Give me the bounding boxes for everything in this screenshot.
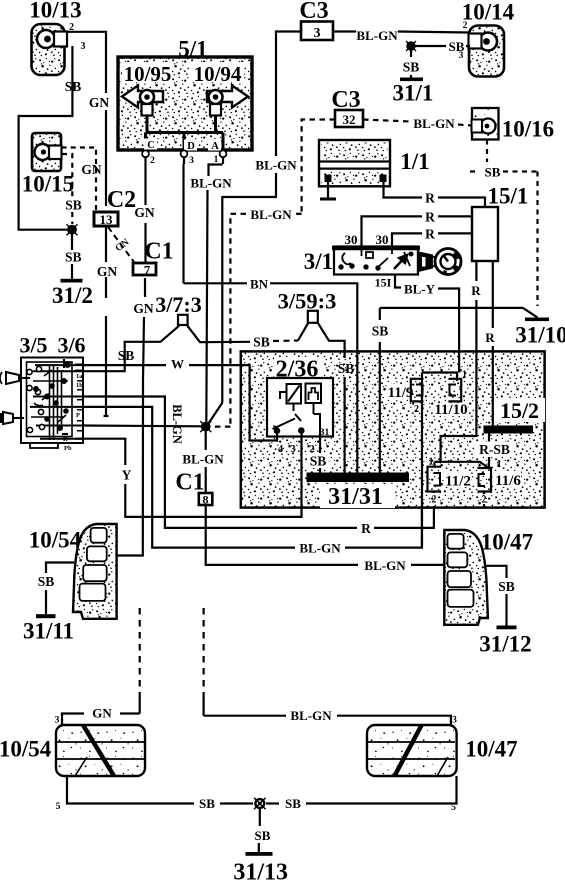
svg-text:C1: C1 [144,239,173,265]
svg-text:1: 1 [497,459,502,470]
ignition switch 3/1 [304,232,420,290]
svg-text:1: 1 [462,370,467,381]
indicator lamp 11/10 [434,379,468,418]
connector C2 [94,187,136,227]
wire R from 15/1 down to junction [441,261,477,462]
indicator lamp 11/9 [387,379,424,415]
label R-SB [476,442,514,458]
wire R fuse to ignition switch feed 1 [362,216,473,246]
flasher relay 2/36 [267,357,333,437]
wire BL-GN from C3-3 to pin A line [206,32,301,427]
svg-text:10/54: 10/54 [29,528,82,553]
svg-text:R: R [485,330,495,345]
pin 5 labels [56,802,457,813]
wire SB 10/47 to ground 31/12 [487,566,507,626]
splice dot BL-GN [200,421,211,432]
connector arrow at switch left [0,372,30,384]
svg-text:31: 31 [320,428,330,438]
svg-text:SB: SB [65,250,82,265]
connector 3/59:3 [278,289,337,323]
wire BL-GN C1-8 to 10/47 [206,505,445,565]
pin C [142,139,157,167]
tail lamp cluster 10/54 left [29,524,117,619]
svg-text:10/16: 10/16 [502,117,554,142]
wire BL-GN from pin A down to splice [206,165,222,427]
svg-text:30: 30 [345,232,358,247]
svg-text:10/94: 10/94 [194,62,242,86]
ground bus bar 31/31 [307,473,410,511]
wire BL-GN from pin D down [182,164,184,283]
svg-text:10/47: 10/47 [465,737,517,762]
svg-text:SB: SB [449,39,465,54]
turn signal switch 3/5 3/6 [19,333,85,449]
splice dot 31/2 [67,224,78,235]
svg-text:2: 2 [463,21,468,31]
wire GN from pin C down [117,164,146,556]
internal wires 5/1 [146,116,224,151]
svg-text:3/6: 3/6 [57,333,85,358]
fuse box 15/1 [472,184,528,262]
svg-text:3/7:3: 3/7:3 [155,292,201,317]
svg-text:11/9: 11/9 [388,385,414,401]
svg-text:R-SB: R-SB [479,442,510,457]
2/36 internal coil [280,384,301,411]
wire SB to ground 31/1 [410,50,412,78]
3/1 internal contacts [339,249,412,270]
svg-text:SB: SB [38,574,55,589]
svg-text:SB: SB [372,324,389,339]
wire junction to 11/2 and 11/6 [435,462,489,468]
wire BL-Y from 3/1 to 11/10 [395,275,459,373]
wire SB switch to 3/7:3 [83,326,250,371]
svg-text:31/13: 31/13 [233,860,288,881]
svg-text:SB: SB [118,348,135,363]
ground 31/13 [233,852,288,881]
svg-text:10/14: 10/14 [462,0,515,25]
connector 3/7:3 [155,292,201,325]
svg-text:R: R [425,191,435,206]
svg-text:SB: SB [255,828,271,843]
svg-text:31/31: 31/31 [328,484,383,510]
svg-text:15I: 15I [375,276,392,290]
svg-text:R: R [425,210,435,225]
3/5 pin ticks [62,364,82,436]
wire BL-GN to rear lamp 10/47 [204,716,451,725]
svg-text:SB: SB [65,79,82,94]
lamp 10/13 front turn signal left [29,0,85,75]
svg-text:GN: GN [92,706,112,721]
svg-text:C1: C1 [175,470,204,496]
svg-text:SB: SB [338,361,355,376]
svg-text:5: 5 [56,802,61,812]
svg-text:31/12: 31/12 [479,632,531,657]
svg-text:2: 2 [150,156,155,166]
wire R-SB from 15/2 to 11/6 [488,434,490,468]
svg-text:C2: C2 [107,187,136,213]
svg-text:10/47: 10/47 [481,530,533,555]
wire to splice from switch [83,424,201,427]
svg-text:13: 13 [100,212,114,227]
wire SB dashed to 3/59:3 [273,339,298,342]
lamp 10/15 side repeater left [22,133,74,197]
wire GN continuation dashed left [139,608,141,714]
wire GN to rear lamp 10/54 [62,714,140,726]
wire GN dashed from 10/15 to C2 [62,148,97,212]
svg-text:3: 3 [81,41,86,52]
svg-text:Y: Y [122,468,132,483]
svg-text:11/6: 11/6 [495,473,521,489]
fuse strip 15/2 [484,398,546,434]
connector C3 pin 32 [331,87,363,127]
wire SB dashed from 10/15 to splice 31/2 [62,154,72,224]
ground 31/10 [515,308,565,348]
svg-text:30: 30 [376,232,389,247]
svg-text:10/15: 10/15 [22,172,74,197]
3/1 key cylinder [418,249,461,275]
wire SB to ground 31/13 [259,808,260,852]
svg-text:3: 3 [452,716,457,726]
labels SB [199,796,301,811]
indicator arrow 10/94 right [207,86,248,116]
svg-text:R: R [471,283,481,298]
wire SB 3/59:3 to 31/31 [298,323,345,473]
ground 31/2 [52,279,93,308]
svg-text:SB: SB [498,579,515,594]
svg-text:31/1: 31/1 [393,81,434,106]
svg-text:BL-GN: BL-GN [356,28,398,43]
wire bridge 11/9 11/10 [422,373,457,548]
wire R switch to 11/2 [83,397,434,528]
wire SB 10/14 to splice 31/1 [416,45,471,48]
wire BN pin D to 31/31 [184,283,358,472]
svg-text:11/2: 11/2 [445,474,471,490]
svg-text:15/1: 15/1 [488,184,529,209]
splice dot 31/1 [406,41,416,51]
svg-text:11/10: 11/10 [434,402,467,418]
svg-text:R: R [63,436,68,443]
svg-text:8: 8 [203,493,209,507]
svg-text:4: 4 [278,444,284,455]
svg-text:3: 3 [189,156,194,166]
svg-text:Pb: Pb [64,445,72,452]
svg-text:10/13: 10/13 [29,0,81,23]
wire BL-GN dashed C3-32 to 10/16 [363,120,471,126]
svg-text:SB: SB [403,60,420,75]
connector C3 pin 3 [299,0,333,41]
rear lamp 10/54 [0,725,145,776]
wire SB rear lamps to splice [67,776,457,804]
connector C1 pin 7 [133,239,174,278]
svg-text:SB: SB [310,454,327,469]
svg-text:3/1: 3/1 [304,249,333,274]
svg-text:2: 2 [414,404,419,415]
splice dot 31/13 [254,798,266,810]
svg-text:1b: 1b [76,382,83,389]
label SB at 2/36 pin 2 [307,453,329,469]
svg-text:BL-GN: BL-GN [255,158,297,173]
svg-text:GN: GN [97,264,118,279]
wire BL-GN switch to 11/9 [83,407,422,548]
wire R from 15/1 to 15/2 [492,261,494,426]
lamp 10/16 side repeater right [472,108,555,142]
wire SB to ground 31/2 [71,234,73,279]
indicator lamp 11/6 [478,468,522,508]
wire GN from 10/13 pin 2 [67,32,109,416]
pin A [208,140,226,166]
svg-text:1/1: 1/1 [400,149,429,174]
wire SB 10/54 to ground 31/11 [46,563,74,615]
svg-text:BL-GN: BL-GN [413,116,455,131]
svg-text:32: 32 [343,112,356,127]
svg-text:BL-GN: BL-GN [364,558,406,573]
svg-text:10/95: 10/95 [124,62,172,86]
wire BL-GN splice to C1 pin 8 [205,431,207,493]
wire GN dashed C2 to C1 [108,227,134,262]
pin D [181,140,197,167]
svg-text:3: 3 [290,444,295,455]
ground 31/1 [393,78,434,106]
tail lamp cluster 10/47 right [444,530,533,625]
svg-text:SB: SB [199,796,215,811]
relay 1/1 [319,140,430,186]
svg-text:BL-GN: BL-GN [190,176,232,191]
svg-text:GN: GN [81,162,102,177]
wire SB from 10/13 pin 3 to splice [19,46,73,230]
svg-text:BL-GN: BL-GN [290,708,332,723]
svg-text:BN: BN [250,277,269,292]
svg-text:BL-GN: BL-GN [170,404,184,444]
ground at 1/1 [320,182,336,201]
svg-text:5: 5 [451,803,456,813]
svg-text:SB: SB [253,335,270,350]
svg-text:1a: 1a [76,373,83,380]
instrument cluster 5/1 [118,37,252,151]
connector stub at switch lower left [0,412,24,424]
3/5 3/6 internal contacts [27,359,84,440]
wire BL-GN dashed C3-32 left [211,120,335,427]
wire BL-GN continuation dashed right [203,608,205,716]
svg-text:2: 2 [432,495,437,506]
pin 1 labels 11/2 11/6 [429,457,502,471]
svg-text:15/2: 15/2 [500,398,539,423]
ground 31/11 [23,614,74,643]
wire W switch to 2/36 pin 4 [83,365,277,440]
svg-text:BL-GN: BL-GN [250,207,292,222]
svg-text:GN: GN [89,95,110,110]
svg-text:C: C [147,140,155,151]
svg-text:A: A [211,141,219,152]
indicator arrow 10/95 left [122,86,163,116]
svg-text:31/10: 31/10 [515,323,565,348]
instrument cluster box 15/2 assembly [241,351,545,507]
wire R from 1/1 to 15/1 [384,182,486,207]
svg-text:3: 3 [314,26,321,41]
ground 31/12 [479,626,531,657]
svg-text:2: 2 [482,495,487,506]
wire SB dashed from 10/16 to 31/10 [470,140,538,307]
svg-text:7: 7 [144,263,151,278]
svg-text:R: R [361,521,371,536]
svg-text:3/5: 3/5 [19,333,47,358]
svg-text:BL-GN: BL-GN [182,452,224,467]
indicator lamp 11/2 [428,467,472,506]
svg-text:R: R [425,227,435,242]
svg-text:GN: GN [133,301,154,316]
svg-text:31/2: 31/2 [52,283,93,308]
svg-text:GN: GN [134,205,155,220]
svg-text:SB: SB [485,165,501,180]
svg-text:BL-GN: BL-GN [299,541,341,556]
wire R fuse to ignition switch feed 2 [392,233,472,246]
lamp 10/14 front turn signal right [459,0,515,77]
wire Y switch to 2/36 pin 3 [75,437,302,517]
wire BL-GN from C3-3 to 10/14 [333,32,469,33]
svg-text:10/54: 10/54 [0,737,52,762]
svg-text:P: P [76,412,80,419]
svg-text:D: D [187,141,195,152]
svg-text:BL-Y: BL-Y [404,282,436,297]
connector C1 pin 8 [175,470,212,507]
2/36 pins [277,432,320,473]
svg-text:SB: SB [285,796,301,811]
svg-text:31/11: 31/11 [23,619,74,644]
2/36 pin labels [278,428,330,455]
svg-text:3: 3 [55,716,60,726]
svg-text:SB: SB [65,198,82,213]
wire SB to ground 31/10 [380,308,523,473]
rear lamp 10/47 [367,725,518,776]
2/36 internal contact [273,384,322,434]
svg-text:W: W [171,357,184,372]
